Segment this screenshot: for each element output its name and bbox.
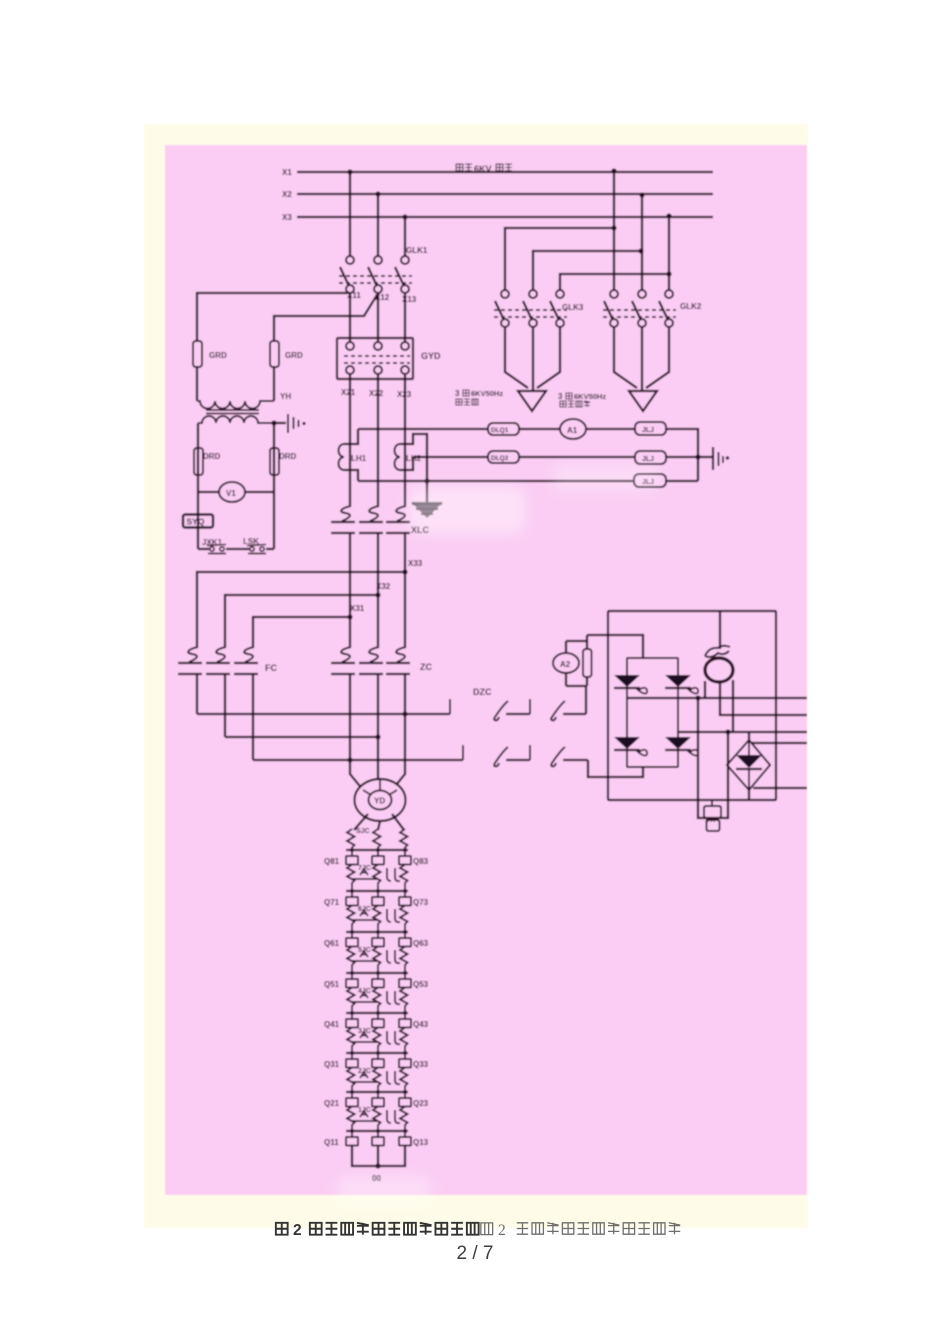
contactor ZC pole1 bbox=[331, 647, 355, 674]
wire A2 to bridge bbox=[587, 635, 643, 658]
label 00 neutral bbox=[372, 1174, 381, 1183]
label Q41 bbox=[324, 1020, 340, 1029]
wire secondary to ground bbox=[274, 422, 286, 424]
label GRD1 bbox=[209, 351, 227, 360]
scan artifact smudge 2 bbox=[552, 465, 660, 491]
caption gray: 图2提升机主回路系统原理图 bbox=[481, 1222, 680, 1239]
svg-text:A2: A2 bbox=[560, 660, 571, 669]
svg-text:Q31: Q31 bbox=[324, 1060, 340, 1069]
junction dot motor phase B bbox=[375, 734, 380, 739]
svg-text:6KV50Hz: 6KV50Hz bbox=[471, 389, 503, 398]
label Q33 bbox=[413, 1060, 429, 1069]
wire row1 left bbox=[358, 428, 488, 430]
thyristor V2 upper-right bbox=[665, 675, 698, 694]
svg-text:2: 2 bbox=[293, 1222, 302, 1239]
ammeter A1 bbox=[560, 419, 586, 439]
svg-text:Q71: Q71 bbox=[324, 898, 340, 907]
disconnect switch GLK1 bbox=[339, 256, 412, 293]
label X33 bbox=[408, 559, 423, 568]
svg-text:ZC: ZC bbox=[420, 662, 432, 672]
transformer YH primary winding bbox=[197, 401, 274, 409]
box SYQ bbox=[183, 515, 213, 528]
label Q61 bbox=[324, 939, 340, 948]
svg-text:X21: X21 bbox=[341, 388, 356, 397]
svg-text:X2: X2 bbox=[282, 190, 292, 199]
wire SYP wrap bbox=[698, 698, 728, 818]
wire GRD1 to YH bbox=[196, 367, 198, 401]
svg-text:LH2: LH2 bbox=[406, 454, 422, 463]
svg-text:JLJ: JLJ bbox=[642, 427, 654, 434]
svg-text:Q61: Q61 bbox=[324, 939, 340, 948]
contactor FC pole2 bbox=[206, 647, 230, 674]
label Q31 bbox=[324, 1060, 340, 1069]
incoming feeder arrow GLK3 bbox=[518, 391, 546, 411]
svg-text:Q41: Q41 bbox=[324, 1020, 340, 1029]
label X31 bbox=[350, 604, 365, 613]
junction dot X32 bbox=[375, 592, 380, 597]
svg-text:DLQ1: DLQ1 bbox=[491, 427, 509, 434]
toroid transducer bbox=[705, 658, 733, 682]
svg-text:X32: X32 bbox=[376, 582, 391, 591]
svg-text:A1: A1 bbox=[567, 426, 578, 435]
rotor resistor section 5 bbox=[347, 988, 408, 1014]
junction dot LH2 ground bbox=[424, 478, 429, 483]
wire GLK3 feed b bbox=[533, 251, 641, 290]
ammeter A2 bbox=[553, 641, 587, 686]
wire GLK3 feed c bbox=[560, 274, 669, 290]
wire bus X3 bbox=[297, 216, 713, 218]
wire X32 to FC2 bbox=[225, 595, 378, 647]
svg-text:DRD: DRD bbox=[279, 452, 297, 461]
svg-text:Q13: Q13 bbox=[413, 1138, 429, 1147]
label X12 bbox=[375, 293, 390, 302]
wire motor lead C bbox=[392, 714, 405, 790]
rotor resistor section 4 bbox=[347, 1028, 408, 1054]
wire ladder bottom U bbox=[352, 1146, 405, 1167]
wire toroid center out bbox=[720, 682, 807, 715]
wire diamond out lower bbox=[753, 787, 807, 789]
wire toroid drop bbox=[719, 611, 721, 649]
label FC bbox=[265, 663, 277, 673]
wire bus X1 bbox=[297, 171, 713, 173]
wire X12 to GYD bbox=[377, 293, 379, 342]
label 3xiang6KV50Hz incoming line bbox=[558, 392, 606, 407]
wire toroid lead left bbox=[704, 681, 706, 698]
svg-text:3: 3 bbox=[455, 389, 460, 398]
contact DZC a2 bbox=[530, 699, 586, 720]
thyristor cabinet box bbox=[608, 611, 776, 800]
toroid arrow flag bbox=[705, 646, 730, 657]
wire X31 to FC3 bbox=[253, 617, 350, 647]
node X2 label bbox=[282, 190, 292, 199]
breaker XLC pole B bbox=[359, 506, 383, 533]
label SJC bbox=[356, 828, 370, 835]
rotor resistor section 8 bbox=[347, 865, 408, 892]
wire FC3 down bbox=[252, 674, 254, 760]
wire ZC2 down bbox=[377, 674, 379, 737]
wire FC1 down bbox=[196, 674, 198, 714]
junction dot X1-GLK1 bbox=[347, 169, 352, 174]
svg-text:X33: X33 bbox=[408, 559, 423, 568]
label 1JC bbox=[358, 1107, 371, 1114]
arrester DLQ2 bbox=[488, 451, 519, 463]
wire V loop right bbox=[273, 423, 275, 549]
junction dot X3-GLK2 bbox=[666, 213, 671, 218]
svg-text:Q81: Q81 bbox=[324, 857, 340, 866]
svg-text:Q53: Q53 bbox=[413, 980, 429, 989]
junction dot X33 bbox=[402, 569, 407, 574]
label GLK3 bbox=[562, 303, 584, 312]
svg-text:GRD: GRD bbox=[285, 351, 303, 360]
wire row3 right bbox=[666, 480, 698, 482]
label Q53 bbox=[413, 980, 429, 989]
resistor DRD1 bbox=[194, 448, 203, 475]
current transformer LH2 bbox=[395, 434, 428, 481]
box SYP bbox=[704, 806, 721, 831]
label 3JC bbox=[358, 1028, 371, 1035]
junction dot syp left bbox=[695, 695, 700, 700]
wire bus X2 bbox=[297, 193, 713, 195]
svg-text:YD: YD bbox=[374, 797, 385, 806]
wire phase C vertical bbox=[404, 374, 406, 506]
caption bold: 图2提升机主回路系统原理图 bbox=[276, 1222, 479, 1239]
shunt resistor bbox=[583, 635, 592, 686]
wire V loop left bbox=[197, 423, 199, 549]
label GYD bbox=[421, 351, 441, 361]
contactor FC pole3 bbox=[234, 647, 258, 674]
wire SYP stub bbox=[711, 801, 713, 807]
svg-text:V1: V1 bbox=[226, 489, 236, 498]
svg-text:Q73: Q73 bbox=[413, 898, 429, 907]
wire phase A vertical bbox=[349, 374, 351, 506]
svg-text:Q63: Q63 bbox=[413, 939, 429, 948]
wire X33 to FC1 bbox=[197, 572, 405, 647]
svg-text:Q23: Q23 bbox=[413, 1099, 429, 1108]
svg-text:SJC: SJC bbox=[356, 828, 370, 835]
shorting contactor row Q61-Q63 bbox=[346, 930, 411, 947]
wire DZC rowA up bbox=[585, 686, 587, 714]
svg-text:Q83: Q83 bbox=[413, 857, 429, 866]
label YH bbox=[280, 392, 291, 401]
junction dot X2-GLK1 bbox=[375, 191, 380, 196]
label Q23 bbox=[413, 1099, 429, 1108]
figure pink scan background bbox=[165, 145, 807, 1195]
wire between contacts bbox=[226, 548, 249, 550]
wire X2 drop to GLK1 bbox=[377, 194, 379, 256]
wire GLK3 feed a bbox=[505, 228, 614, 290]
label XLC bbox=[411, 525, 430, 535]
relay JLJ2 bbox=[635, 451, 666, 464]
junction dot X31 bbox=[347, 614, 352, 619]
label X11 bbox=[347, 291, 361, 300]
arrester DLQ1 bbox=[488, 423, 519, 435]
wire row2 right bbox=[666, 456, 698, 458]
wire GLK3 funnel bbox=[505, 327, 560, 390]
svg-text:GRD: GRD bbox=[209, 351, 227, 360]
thyristor V1 upper-left bbox=[614, 675, 647, 694]
label Q43 bbox=[413, 1020, 429, 1029]
wire row1 to corner bbox=[666, 429, 698, 481]
diode module diamond bbox=[727, 740, 770, 790]
svg-text:JLJ: JLJ bbox=[642, 456, 654, 463]
resistor GRD2 bbox=[270, 341, 279, 367]
wire X12 to GRD2 branch bbox=[274, 295, 377, 341]
svg-text:GLK3: GLK3 bbox=[562, 303, 584, 312]
svg-text:X1: X1 bbox=[282, 168, 292, 177]
wire bottom row LSK bbox=[266, 548, 274, 550]
disconnect switch GLK3 bbox=[494, 290, 567, 327]
contactor ZC pole3 bbox=[386, 647, 410, 674]
wire GRD2 to YH bbox=[273, 367, 275, 401]
relay JLJ3 bbox=[634, 474, 666, 487]
svg-text:GYD: GYD bbox=[421, 351, 441, 361]
label Q71 bbox=[324, 898, 340, 907]
junction dot GLK3 feed c bbox=[666, 271, 671, 276]
shorting contactor row Q71-Q73 bbox=[346, 889, 411, 906]
wire row2 mid bbox=[519, 456, 635, 458]
label DRD2 bbox=[279, 452, 297, 461]
wire ZC3 down bbox=[404, 674, 406, 714]
figure ivory mat bbox=[144, 124, 808, 1228]
disconnect switch GLK2 bbox=[603, 290, 676, 327]
scan artifact smudge 1 bbox=[408, 486, 526, 534]
resistor GRD1 bbox=[193, 341, 202, 367]
voltmeter V1 bbox=[219, 482, 245, 502]
ground YH secondary bbox=[288, 414, 306, 433]
transformer YH core bbox=[206, 410, 259, 414]
wire row1 mid bbox=[519, 428, 560, 430]
shorting contactor row Q11-Q13 bbox=[346, 1129, 411, 1146]
motor YD bbox=[355, 779, 406, 821]
junction dot X2-GLK2 bbox=[639, 192, 644, 197]
contactor FC pole1 bbox=[178, 647, 202, 674]
label GLK2 bbox=[680, 302, 702, 311]
ground relay rows bbox=[713, 447, 729, 470]
rotor resistor section 6 bbox=[347, 947, 408, 974]
label 3xiang6KV50Hz spare line bbox=[455, 389, 503, 405]
current transformer LH1 bbox=[339, 429, 359, 481]
shorting contactor row Q81-Q83 bbox=[346, 848, 411, 865]
scan artifact smudge 3 bbox=[336, 1176, 432, 1202]
wire phase C mid vertical bbox=[404, 533, 406, 647]
contact DZC c1 bbox=[463, 745, 530, 766]
node X1 label bbox=[282, 168, 292, 177]
isolator GYD box bbox=[337, 338, 413, 379]
label DZC bbox=[473, 687, 492, 697]
wire X3 drop to GLK1 bbox=[404, 217, 406, 256]
junction dot GLK3 feed b bbox=[638, 248, 643, 253]
rotor resistor first section bbox=[347, 829, 408, 850]
svg-text:GLK2: GLK2 bbox=[680, 302, 702, 311]
wire phase B vertical bbox=[377, 374, 379, 506]
label X22 bbox=[369, 389, 384, 398]
svg-text:DZC: DZC bbox=[473, 687, 492, 697]
wire X3 drop to GLK2 bbox=[668, 216, 670, 290]
svg-text:6KV50Hz: 6KV50Hz bbox=[574, 392, 606, 401]
shorting contactor row Q21-Q23 bbox=[346, 1090, 411, 1107]
thyristor V4 lower-right bbox=[665, 737, 698, 756]
wire X13 to GYD bbox=[404, 293, 406, 342]
label Q63 bbox=[413, 939, 429, 948]
svg-text:2: 2 bbox=[498, 1222, 506, 1239]
svg-text:Q43: Q43 bbox=[413, 1020, 429, 1029]
wire motor tail A bbox=[354, 814, 368, 830]
wire A2 bottom node bbox=[566, 685, 587, 687]
svg-text:X3: X3 bbox=[282, 213, 292, 222]
wire X11 to GRD1 branch bbox=[197, 293, 348, 341]
wire DZC rowC to bridge bbox=[588, 760, 643, 777]
wire DC bus minus bbox=[679, 731, 807, 733]
shorting contactor row Q31-Q33 bbox=[346, 1051, 411, 1068]
junction dot X1-GLK2 bbox=[611, 168, 616, 173]
wire motor tail B bbox=[378, 821, 380, 830]
wire row A crossover bbox=[197, 713, 450, 715]
label LH1 bbox=[351, 454, 367, 463]
contact LSK bbox=[247, 545, 266, 554]
rotor resistor section 2 bbox=[347, 1107, 408, 1132]
label 6JC bbox=[358, 906, 371, 913]
label DRD1 bbox=[203, 452, 221, 461]
rotor resistor section 7 bbox=[347, 906, 408, 933]
label Q11 bbox=[324, 1138, 339, 1147]
wire phase A mid vertical bbox=[349, 533, 351, 647]
label JXK1 bbox=[202, 538, 223, 547]
wire toroid lead right bbox=[732, 680, 734, 732]
label GRD2 bbox=[285, 351, 303, 360]
label X13 bbox=[402, 295, 417, 304]
label Q21 bbox=[324, 1099, 340, 1108]
junction dot motor phase C bbox=[402, 711, 407, 716]
breaker XLC pole C bbox=[386, 506, 410, 533]
wire row C crossover bbox=[253, 759, 463, 761]
ground LH2 earth bbox=[411, 481, 443, 518]
wire V1 row left bbox=[198, 491, 219, 493]
contact DZC c2 bbox=[530, 745, 588, 766]
wire bottom row JXK1 bbox=[198, 548, 209, 550]
shorting contactor row Q41-Q43 bbox=[346, 1011, 411, 1028]
wire ground stub bbox=[698, 456, 712, 458]
rotor resistor section 3 bbox=[347, 1068, 408, 1093]
svg-text:3: 3 bbox=[558, 392, 563, 401]
rectifier bridge box bbox=[627, 658, 678, 767]
breaker XLC pole A bbox=[331, 506, 355, 533]
label Q81 bbox=[324, 857, 340, 866]
junction dot syp right bbox=[725, 729, 730, 734]
svg-text:GLK1: GLK1 bbox=[406, 246, 428, 255]
wire V1 row right bbox=[245, 491, 274, 493]
wire motor tail C bbox=[392, 814, 404, 830]
svg-text:Q33: Q33 bbox=[413, 1060, 429, 1069]
junction dot GLK3 feed a bbox=[611, 225, 616, 230]
label Q13 bbox=[413, 1138, 429, 1147]
junction dot ladder bottom bbox=[375, 1163, 380, 1168]
wire X1 drop to GLK1 bbox=[349, 172, 351, 256]
svg-text:Q21: Q21 bbox=[324, 1099, 340, 1108]
wire phase B mid vertical bbox=[377, 533, 379, 647]
label GLK1 bbox=[406, 246, 428, 255]
wire FC2 down bbox=[224, 674, 226, 737]
wire GLK2 funnel bbox=[614, 327, 669, 390]
page number 2 / 7 bbox=[457, 1243, 494, 1264]
wire row2 left bbox=[413, 456, 488, 458]
wire ladder bottom mid bbox=[377, 1146, 379, 1167]
junction dot YH secondary bbox=[271, 420, 276, 425]
svg-text:SYQ: SYQ bbox=[187, 517, 205, 527]
label 2JC bbox=[358, 1068, 371, 1075]
wire diamond out upper bbox=[752, 742, 807, 744]
svg-text:FC: FC bbox=[265, 663, 277, 673]
wire X1 drop to GLK2 bbox=[613, 171, 615, 290]
svg-text:LH1: LH1 bbox=[351, 454, 367, 463]
label X21 bbox=[341, 388, 356, 397]
wire diamond top bbox=[748, 732, 750, 740]
wire diamond bottom bbox=[748, 790, 750, 801]
contact DZC a1 bbox=[450, 699, 530, 720]
resistor DRD2 bbox=[270, 448, 279, 475]
contact JXK1 bbox=[207, 545, 226, 554]
thyristor V3 lower-left bbox=[614, 737, 647, 756]
label LSK bbox=[243, 537, 259, 546]
transformer YH secondary winding bbox=[198, 416, 274, 423]
label LH2 bbox=[406, 454, 422, 463]
contactor ZC pole2 bbox=[359, 647, 383, 674]
incoming feeder arrow GLK2 bbox=[629, 391, 657, 411]
shorting contactor row Q51-Q53 bbox=[346, 971, 411, 988]
relay JLJ1 bbox=[635, 422, 666, 435]
label 7JC bbox=[358, 865, 371, 872]
label X32 bbox=[376, 582, 391, 591]
label X23 bbox=[397, 390, 412, 399]
label Q51 bbox=[324, 980, 340, 989]
label ZC bbox=[420, 662, 432, 672]
svg-text:X31: X31 bbox=[350, 604, 365, 613]
wire DC bus plus bbox=[627, 697, 807, 699]
svg-text:DRD: DRD bbox=[203, 452, 221, 461]
wire row1 right bbox=[586, 428, 635, 430]
svg-text:Q51: Q51 bbox=[324, 980, 340, 989]
label Q83 bbox=[413, 857, 429, 866]
wire X2 drop to GLK2 bbox=[641, 195, 643, 290]
label 5JC bbox=[358, 947, 371, 954]
isolator GYD contacts bbox=[344, 342, 410, 374]
junction dot rows-ground bbox=[695, 454, 700, 459]
wire ZC1 down bbox=[349, 674, 351, 760]
svg-text:Q11: Q11 bbox=[324, 1138, 339, 1147]
svg-text:6KV: 6KV bbox=[474, 164, 492, 174]
svg-text:YH: YH bbox=[280, 392, 291, 401]
wire row B crossover bbox=[225, 736, 378, 738]
svg-text:X22: X22 bbox=[369, 389, 384, 398]
node X3 label bbox=[282, 213, 292, 222]
svg-text:2 / 7: 2 / 7 bbox=[457, 1243, 494, 1264]
junction dot X3-GLK1 bbox=[402, 214, 407, 219]
svg-text:DLQ2: DLQ2 bbox=[491, 455, 509, 462]
label 4JC bbox=[358, 988, 371, 995]
wire row3 left bbox=[358, 480, 634, 482]
label Q73 bbox=[413, 898, 429, 907]
svg-text:SYP: SYP bbox=[705, 818, 717, 824]
wire motor lead A bbox=[350, 760, 363, 790]
wire X11 to GYD bbox=[349, 293, 351, 342]
wire motor lead B bbox=[377, 737, 379, 780]
junction dot motor phase A bbox=[347, 757, 352, 762]
label 交流6KV电源 supply title bbox=[456, 164, 512, 174]
